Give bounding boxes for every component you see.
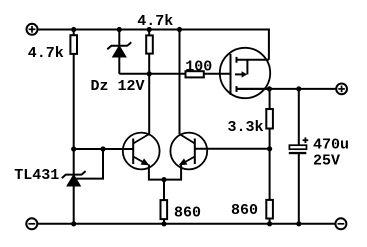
transistor Q2 (right NPN): [164, 133, 207, 180]
transistor Q1 (left NPN): [123, 133, 164, 180]
resistor 4.7k #2 body: [146, 35, 153, 53]
node bottom rail / 860#1: [161, 221, 166, 226]
wire rail to Q2 collector vertical: [179, 30, 181, 135]
wire 3.3k / 860 #2 column: [269, 89, 271, 224]
svg-text:25V: 25V: [313, 153, 340, 170]
node TL431 ref / base row: [100, 146, 105, 151]
resistor 100 body: [186, 71, 204, 77]
svg-text:4.7k: 4.7k: [137, 13, 173, 30]
node rail/4.7k#1: [71, 27, 76, 32]
node rail/Q2 collector: [177, 27, 182, 32]
node bottom rail / TL431: [71, 221, 76, 226]
wire output row (MOSFET source to + terminal): [237, 88, 337, 90]
resistor 860 #1 body: [161, 200, 168, 219]
svg-text:3.3k: 3.3k: [228, 119, 264, 136]
wire left branch vertical (4.7k #1 / TL431): [73, 30, 75, 224]
zener diode Dz 12V: [107, 42, 131, 57]
wire Q2 base to 3.3k bottom node: [195, 148, 270, 150]
terminal + output (right): [336, 84, 347, 95]
resistor 4.7k #1 body: [70, 35, 77, 54]
wire Q1 base row: [74, 148, 134, 150]
svg-text:4.7k: 4.7k: [28, 45, 64, 62]
capacitor polarity plus sign: [303, 137, 309, 143]
node output / capacitor: [296, 86, 301, 91]
svg-text:Dz 12V: Dz 12V: [91, 78, 145, 95]
wire top rail with corner down to MOSFET drain: [38, 30, 269, 60]
node rail/4.7k#2: [147, 27, 152, 32]
shunt regulator TL431: [62, 171, 86, 186]
svg-text:860: 860: [231, 202, 258, 219]
wire node row y=73.8 (zener to 100 resistor to gate): [119, 73, 230, 75]
wire bottom rail: [37, 223, 335, 225]
terminal + input (top left): [27, 24, 38, 35]
svg-text:470u: 470u: [313, 137, 349, 154]
wire capacitor column top: [298, 89, 300, 147]
wire zener branch vertical bottom: [118, 57, 120, 74]
node MOSFET source / 3.3k: [267, 86, 272, 91]
svg-text:860: 860: [174, 205, 201, 222]
wire capacitor column bottom: [298, 153, 300, 224]
wire zener branch vertical top: [118, 30, 120, 46]
node bottom rail / capacitor: [296, 221, 301, 226]
wire TL431 ref connection: [76, 149, 103, 179]
resistor 860 #2 body: [266, 200, 273, 219]
terminal - bottom left: [26, 218, 37, 229]
resistor 3.3k body: [266, 109, 273, 129]
node zener/4.7k#2/Q1 collector/100: [147, 71, 152, 76]
MOSFET Q3: [220, 48, 270, 98]
svg-text:100: 100: [185, 58, 212, 75]
node left branch / Q1 base: [71, 146, 76, 151]
wire emitter node down to 860 #1: [163, 180, 165, 224]
capacitor 470u bottom plate: [289, 152, 307, 154]
node rail/zener: [117, 27, 122, 32]
svg-text:TL431: TL431: [14, 167, 59, 184]
node emitters: [161, 177, 166, 182]
terminal - bottom right: [335, 218, 346, 229]
wire 4.7k #2 / Q1 collector vertical: [148, 30, 150, 135]
node bottom rail / 860#2: [267, 221, 272, 226]
capacitor 470u top plate: [289, 145, 306, 149]
node 3.3k / Q2 base: [267, 146, 272, 151]
